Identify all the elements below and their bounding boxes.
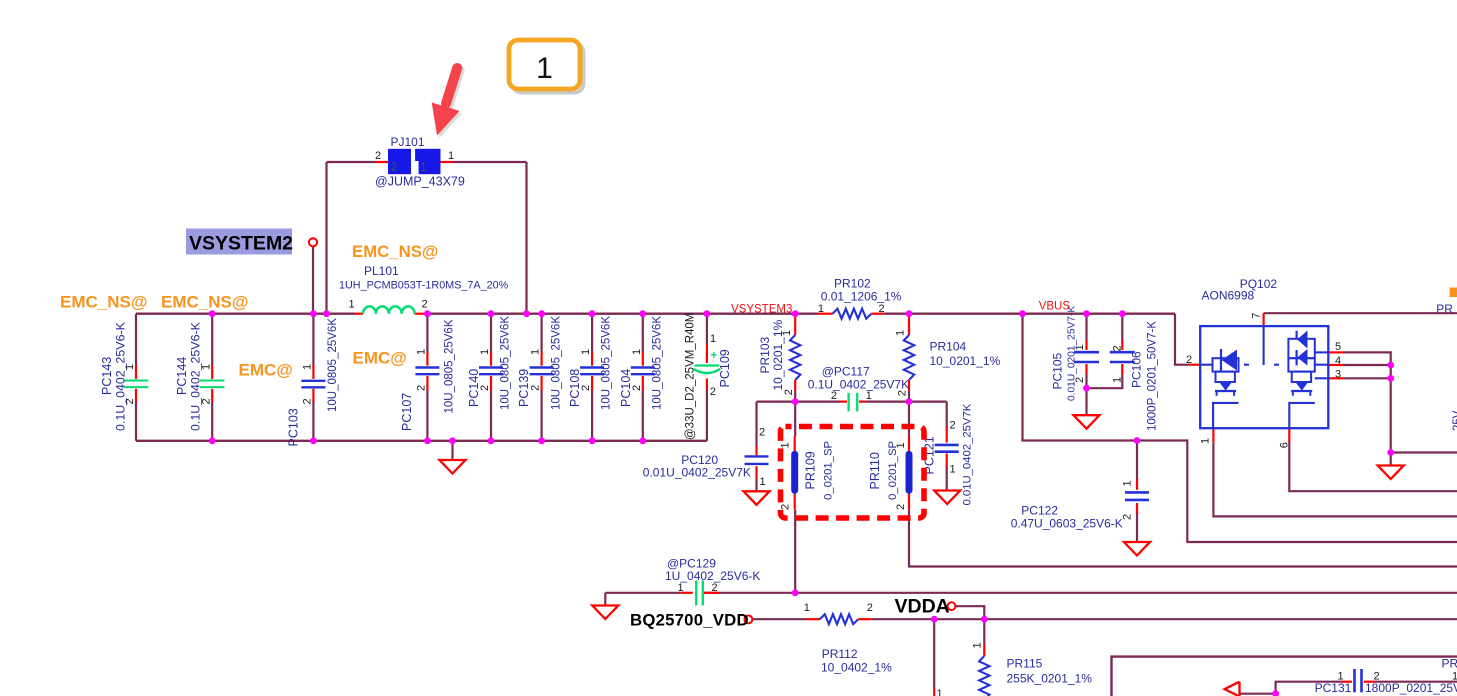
svg-text:1: 1 [895,330,907,336]
wire: PR110 upper [908,402,910,437]
wire: PR109 lower to PC129 bus [794,510,796,593]
svg-text:2: 2 [421,299,427,311]
pin stub PJ101 pin2 [375,161,388,163]
svg-text:PC122: PC122 [1021,504,1058,518]
node pin3 [1387,375,1394,382]
pin stub bottom x=934 [933,688,935,696]
svg-text:2: 2 [867,602,873,614]
svg-text:10U_0805_25V6K: 10U_0805_25V6K [652,316,664,410]
transistor PQ102 internals right FET [1288,331,1328,429]
capacitor PC120 plates [745,455,769,457]
inductor PL101 coil [363,306,415,313]
pin stubs cap x=642.8 [642,352,644,366]
pin stubs cap x=212.2 [211,365,213,379]
resistor PR109 jumper bar [791,451,798,494]
svg-text:2: 2 [391,160,398,174]
wire: PQ102 pin1 net [1213,442,1457,516]
svg-text:2: 2 [580,385,592,391]
svg-text:EMC@: EMC@ [239,361,293,380]
pin stub PR115 pin1 [983,643,985,656]
svg-text:@33U_D2_25VM_R40M: @33U_D2_25VM_R40M [685,313,697,440]
pin stub PQ102 pin4 [1328,364,1343,366]
svg-text:2: 2 [631,385,643,391]
pin stub PC129 pin2 [703,592,718,594]
svg-text:AON6998: AON6998 [1202,289,1255,303]
wire: PR110 lower, corner to right [909,510,1457,567]
svg-text:VSYSTEM3: VSYSTEM3 [731,304,792,316]
pin stub PR110 pin2 [908,494,910,510]
svg-text:1: 1 [348,299,354,311]
wire: left bus vertical PC143 branch [135,314,137,365]
wire: PC106 branch [1121,314,1123,340]
resistor PR103 [790,335,800,380]
pin stub PC120 pin1 [755,466,757,479]
capacitor PC103 plates [301,380,325,382]
pin stub PR104 pin1 [908,314,910,335]
pin stub PQ102 pin2 [1190,364,1201,366]
svg-text:1: 1 [124,364,136,370]
pin stub PC120 pin2 [755,446,757,455]
svg-text:1UH_PCMB053T-1R0MS_7A_20%: 1UH_PCMB053T-1R0MS_7A_20% [339,280,509,292]
pin stub PC129 pin1 [680,592,693,594]
svg-text:25V: 25V [1452,410,1457,431]
annotation dashed red box around PR109/PR110 [781,427,925,519]
ground (PC105/PC106) [1074,415,1100,429]
capacitor PC107 plates [415,366,439,368]
wire: PC117 row horizontal [757,401,841,403]
svg-text:1: 1 [818,303,824,315]
pin stub PL101 pin1 [355,313,364,315]
svg-text:1: 1 [479,349,491,355]
capacitor PC117 plates [847,393,849,412]
terminal circle VDDA [948,602,956,610]
pin stub PR103 pin2 [794,380,796,391]
svg-text:+: + [711,350,718,362]
svg-text:1000P_0201_50V7-K: 1000P_0201_50V7-K [1147,321,1159,431]
capacitor PC108 plates [580,366,604,368]
svg-text:0.1U_0402_25V7K: 0.1U_0402_25V7K [808,378,909,392]
pin stub PQ102 pin5 [1328,351,1343,353]
node pin4 [1387,362,1394,369]
pin stub PC105 pin2 [1085,364,1087,374]
svg-text:1: 1 [580,349,592,355]
wire: cap branch x=427.4 [426,314,428,352]
svg-text:PC131: PC131 [1315,681,1352,695]
annotation red arrow [432,68,462,138]
svg-text:7: 7 [1251,313,1263,319]
resistor PR110 jumper bar [906,451,913,494]
pin stub PC117 pin1 [859,401,866,403]
node VSYSTEM2 highlight label [186,229,292,255]
svg-text:VDDA: VDDA [895,596,950,618]
svg-text:1: 1 [781,330,793,336]
wire: VDDA bus (wire C) [752,618,806,620]
wire: PC120 branch [755,402,757,446]
svg-text:EMC@: EMC@ [353,349,407,368]
svg-text:2: 2 [711,582,717,594]
svg-text:PL101: PL101 [364,264,399,278]
svg-text:0.01U_0402_25V7K: 0.01U_0402_25V7K [962,403,974,505]
wire: jumper loop right riser [525,162,527,314]
pin stub PR110 pin1 [908,436,910,451]
wire: PQ102 pin5 wire [1343,352,1391,452]
svg-text:PR109: PR109 [804,451,818,489]
pin stub PC106 pin2 [1121,340,1123,350]
wire: PC105/PC106 ground stem [1085,388,1087,415]
svg-text:2: 2 [950,420,956,432]
node x934 on VDDA bus [931,616,938,623]
pin stubs cap x=592.1 [591,352,593,366]
svg-text:PR115: PR115 [1007,657,1043,671]
wire: jumper top right [453,161,527,163]
transistor PQ102 internals left FET [1200,326,1279,428]
wire: top bus VSYSTEM2/EMC segment [136,313,355,315]
pin stubs cap x=136 [135,365,137,379]
svg-text:2: 2 [895,504,907,510]
svg-text:1U_0402_25V6-K: 1U_0402_25V6-K [665,569,760,583]
svg-text:PR: PR [1436,302,1453,316]
node PR104/PC117 [906,398,913,405]
ground rotated (bottom right, cut) [1225,682,1240,696]
svg-text:PR: PR [1442,657,1457,671]
svg-text:PC103: PC103 [287,408,301,446]
svg-text:1: 1 [866,390,872,402]
svg-text:6: 6 [1279,442,1291,448]
pin stub PC109 pin2 [706,379,708,391]
svg-text:1: 1 [530,349,542,355]
wire: cap branch x=592.1 [591,314,593,352]
pin stub PC122 pin2 [1136,503,1138,514]
svg-text:1: 1 [416,349,428,355]
svg-text:1: 1 [804,602,810,614]
svg-text:4: 4 [1335,355,1341,367]
svg-text:2: 2 [780,504,792,510]
node PC131 corner [1272,690,1279,696]
svg-text:1: 1 [972,642,984,648]
wire: VBUS corner down to PQ102 pin2 [1175,314,1190,365]
wire: PC144 branch [211,314,213,365]
pin stubs cap x=541.6 [540,352,542,366]
terminal circle BQ25700_VDD [745,616,753,624]
svg-text:10U_0805_25V6K: 10U_0805_25V6K [444,319,456,413]
svg-text:1: 1 [200,364,212,370]
svg-text:10U_0805_25V6K: 10U_0805_25V6K [327,318,339,412]
svg-text:PC144: PC144 [175,357,189,395]
wire: bottom-right block outline [1112,657,1457,696]
capacitor PC144 plates [200,380,225,382]
svg-text:1: 1 [1074,344,1086,350]
ground (PC120) [744,491,770,505]
svg-text:2: 2 [479,385,491,391]
svg-text:2: 2 [1112,345,1124,351]
pin stub PQ102 pin1 [1212,428,1214,442]
jumper PJ101 pads [388,149,411,174]
svg-text:EMC_NS@: EMC_NS@ [60,293,147,312]
svg-text:PC109: PC109 [718,349,732,387]
pin stub PJ101 pin1 [441,161,454,163]
svg-text:0.01_1206_1%: 0.01_1206_1% [821,290,902,304]
pin stub PQ102 pin7 [1262,313,1264,326]
wire: PR104 lower to node [908,391,910,402]
node ground 1390 [1387,449,1394,456]
svg-text:2: 2 [416,385,428,391]
svg-text:3: 3 [1335,369,1341,381]
capacitor PC139 plates [530,366,554,368]
wire: stem from rotated ground to node [1240,693,1276,695]
annotation callout box 1 [513,44,584,93]
svg-text:PR102: PR102 [834,277,871,291]
svg-text:1: 1 [895,442,907,448]
svg-text:0_0201_SP: 0_0201_SP [823,441,835,500]
wire: PQ102 pin4 wire [1343,364,1391,366]
svg-text:2: 2 [783,389,795,395]
wire: jumper top left [327,161,376,163]
pin stub PC121 pin2 [946,427,948,443]
wire: cap branch x=541.6 [540,314,542,352]
pin stub PR112 pin2 [858,618,872,620]
svg-text:10U_0805_25V6K: 10U_0805_25V6K [551,316,563,410]
svg-text:EMC_NS@: EMC_NS@ [352,242,438,261]
pin stubs cap x=491 [490,352,492,366]
pin stub PC105 pin1 [1085,340,1087,350]
wire: cap branch x=491 [490,314,492,352]
svg-text:0.01U_0402_25V7K: 0.01U_0402_25V7K [643,466,751,480]
pin stub PC106 pin1 [1121,364,1123,374]
svg-text:2: 2 [200,398,212,404]
capacitor PC131 plates [1353,669,1356,692]
pin stub PQ102 pin6 [1288,428,1290,442]
svg-text:1: 1 [631,349,643,355]
svg-text:2: 2 [759,427,765,439]
svg-text:2: 2 [530,385,542,391]
svg-text:1: 1 [760,476,766,488]
wire: PC105 branch [1085,314,1087,340]
wire: ground stem at 1390 [1390,453,1392,466]
svg-text:PR112: PR112 [822,647,858,661]
svg-text:0.1U_0402_25V6-K: 0.1U_0402_25V6-K [114,321,128,431]
ground (PQ102 pins 3/4/5 node) [1378,466,1404,480]
svg-text:10U_0805_25V6K: 10U_0805_25V6K [500,316,512,410]
svg-text:10_0402_1%: 10_0402_1% [821,661,892,675]
svg-text:1: 1 [420,160,427,174]
svg-text:0.47U_0603_25V6-K: 0.47U_0603_25V6-K [1011,517,1123,531]
svg-text:PC143: PC143 [100,357,114,395]
wire: VSYSTEM3 bus after PR102 [884,313,1175,315]
svg-text:2: 2 [1373,671,1379,683]
svg-text:2: 2 [1186,354,1192,366]
ground (PC121) [934,491,960,505]
wire: PQ102 pin6 net [1289,442,1457,491]
pin stub PQ102 pin3 [1328,377,1343,379]
pin stub PC117 pin2 [840,401,847,403]
svg-text:0.1U_0402_25V6-K: 0.1U_0402_25V6-K [189,321,203,431]
wire: PR115 upper [983,619,985,643]
pin stub PR102 pin1 [818,313,833,315]
capacitor PC143 plates [124,380,149,382]
svg-text:1: 1 [1112,377,1124,383]
pin stub PR104 pin2 [908,380,910,391]
wire: PC109 branch [706,314,708,344]
wire: PQ102 pin7 net to right edge [1264,312,1457,314]
ground (PC122) [1124,542,1150,556]
svg-text:10U_0805_25V6K: 10U_0805_25V6K [601,316,613,410]
svg-text:PJ101: PJ101 [391,135,425,149]
junction dots top bus [209,310,216,317]
pin stub PC131 pin1 [1341,681,1352,683]
terminal circle VSYSTEM2 [309,238,317,246]
svg-text:2: 2 [1074,377,1086,383]
wire: PC122 branch [1136,441,1138,480]
svg-text:VSYSTEM2: VSYSTEM2 [189,233,293,255]
svg-text:1: 1 [950,464,956,476]
svg-text:PC106: PC106 [1130,351,1144,388]
pin stub PL101 pin2 [415,313,428,315]
wire: ground node to right edge [1391,451,1457,453]
svg-text:1: 1 [536,52,553,85]
node PC105/PC106 ground [1083,385,1090,392]
wire: EMC ground stem at bottom bus [451,441,453,460]
resistor PR112 [820,614,858,624]
svg-text:PC107: PC107 [400,393,414,431]
node PR109/wireB [792,589,799,596]
wire: VDDA alias drop [955,606,984,619]
pin stub PR103 pin1 [794,314,796,335]
svg-text:PR103: PR103 [758,336,772,373]
wire: bottom EMC bus [136,440,707,442]
resistor PR104 [904,335,914,380]
pin stub PR109 pin1 [794,436,796,451]
node PC122 tap [1134,437,1141,444]
svg-text:BQ25700_VDD: BQ25700_VDD [630,611,749,630]
ground (PC129) [592,606,618,620]
svg-text:1: 1 [1122,480,1134,486]
svg-text:1: 1 [677,582,683,594]
svg-text:PR110: PR110 [868,452,882,489]
wire: PR109 upper [794,402,796,437]
capacitor PC106 plates [1110,351,1135,354]
pin stub PC131 pin2 [1364,681,1375,683]
ground (EMC bus) [440,460,466,474]
svg-text:2: 2 [302,398,314,404]
svg-text:EMC_NS@: EMC_NS@ [161,293,248,312]
wire: PQ102 pin3 wire [1343,377,1391,379]
svg-text:2: 2 [879,303,885,315]
svg-text:2: 2 [375,150,381,162]
resistor PR102 [833,309,872,319]
wire: PC129 ground stem [604,593,606,606]
wire: cap branch x=642.8 [642,314,644,352]
pin stub PC122 pin1 [1136,479,1138,490]
svg-text:1: 1 [1337,671,1343,683]
svg-text:1800P_0201_25V: 1800P_0201_25V [1365,681,1457,695]
capacitor PC122 plates [1125,491,1149,494]
capacitor PC129 plates [695,581,697,606]
wire: BQ25700_VDD/PC129 bus (wire B) [605,592,680,594]
pin stub PR112 pin1 [806,618,820,620]
svg-text:1: 1 [780,442,792,448]
svg-text:2: 2 [124,398,136,404]
pin stubs cap x=313.4 [312,365,314,379]
capacitor PC105 plates [1074,351,1099,354]
svg-text:PR104: PR104 [930,340,967,354]
svg-text:1: 1 [1452,671,1457,683]
svg-text:0.01U_0201_25V7-K: 0.01U_0201_25V7-K [1067,306,1078,401]
svg-text:2: 2 [1122,514,1134,520]
svg-text:@JUMP_43X79: @JUMP_43X79 [375,175,465,189]
pin stub PC109 pin1 [706,344,708,363]
wire: VBUS descent and lower run [1023,314,1457,542]
wire: top bus after inductor [427,313,818,315]
svg-text:@PC117: @PC117 [822,365,870,379]
svg-text:1: 1 [1200,438,1212,444]
pin stub PC121 pin1 [946,453,948,467]
pin stub PR109 pin2 [794,494,796,510]
svg-text:10_0201_1%: 10_0201_1% [930,354,1001,368]
node PR115 on VDDA bus [981,616,988,623]
svg-text:2: 2 [831,390,837,402]
svg-text:1: 1 [448,150,454,162]
svg-text:255K_0201_1%: 255K_0201_1% [1007,672,1093,686]
svg-text:5: 5 [1335,341,1341,353]
pin stubs cap x=427.4 [426,352,428,366]
svg-text:1: 1 [936,688,942,696]
svg-text:0_0201_SP: 0_0201_SP [887,441,899,500]
junction dots bottom bus [209,437,216,444]
pin stub PR102 pin2 [871,313,884,315]
svg-text:1: 1 [302,364,314,370]
transistor PQ102 body [1200,326,1328,428]
capacitor PC121 plates [935,444,959,447]
svg-text:2: 2 [710,386,716,398]
wire: PC131 net [1276,682,1341,694]
node PR103/PC117 [792,398,799,405]
capacitor PC104 plates [631,366,655,368]
resistor PR115 (cut at bottom) [979,656,989,696]
net label orange (cut right edge) [1450,288,1457,298]
wire: PR103 lower to node [794,391,796,402]
svg-text:1: 1 [710,333,716,345]
capacitor PC109 polarized plates [695,364,720,366]
wire: jumper loop left riser [325,162,327,314]
wire: PC103 branch [312,314,314,365]
svg-text:PC105: PC105 [1051,352,1065,389]
wire: PC121 branch [946,402,948,428]
capacitor PC140 plates [479,366,503,368]
wire: VSYSTEM2 stub [312,247,314,314]
wire: branch down from VDDA at x=934 [933,619,935,688]
